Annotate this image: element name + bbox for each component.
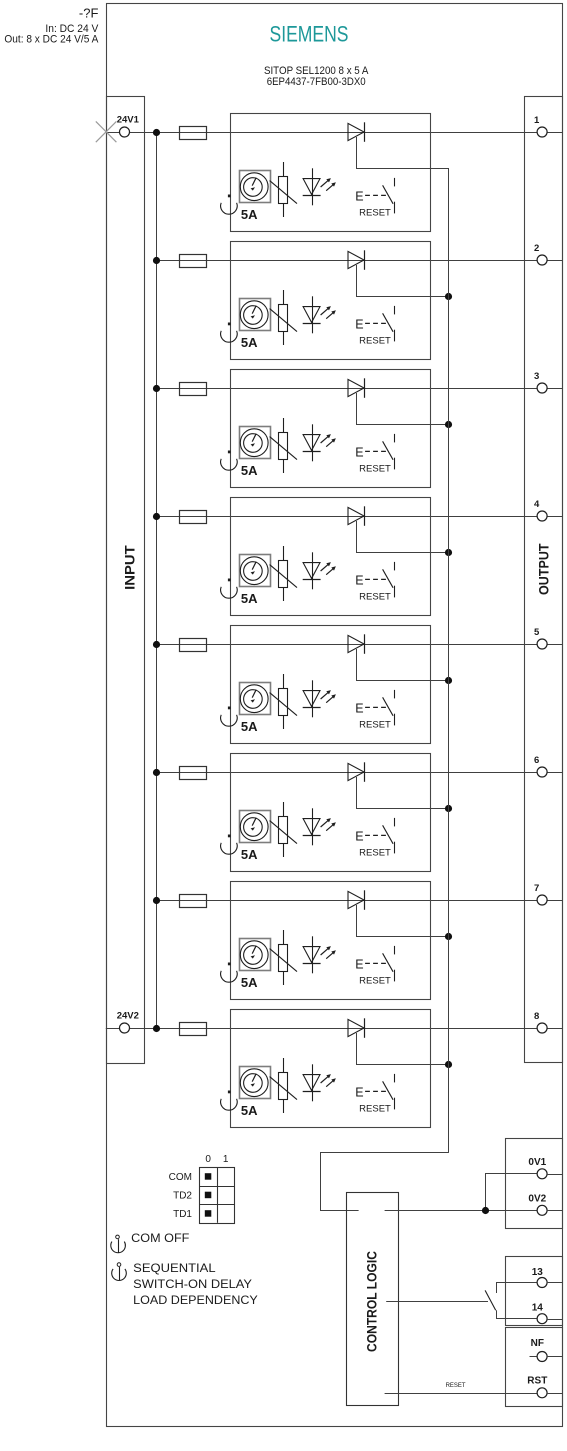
diode channel 2 xyxy=(348,250,365,269)
wire channel 6 sense tap to reset bus xyxy=(357,777,449,809)
reset switch E channel 6 xyxy=(355,818,394,854)
wire channel 8 sense tap to reset bus xyxy=(357,1033,449,1065)
svg-text:7: 7 xyxy=(534,883,539,894)
terminal RST xyxy=(527,1376,547,1398)
current sensor 5A channel 3 xyxy=(240,427,271,459)
svg-text:5A: 5A xyxy=(241,847,258,862)
electronic switch block channel 1 xyxy=(231,114,431,232)
svg-text:E: E xyxy=(355,958,363,972)
legend anchor symbol sequential xyxy=(112,1263,127,1281)
svg-text:RESET: RESET xyxy=(359,1103,391,1114)
junction node channel 4 on reset bus xyxy=(445,549,452,556)
wire NF stub left xyxy=(530,1356,538,1358)
current sensor 5A channel 4 xyxy=(240,555,271,587)
svg-text:8: 8 xyxy=(534,1011,539,1022)
junction node channel 3 on reset bus xyxy=(445,421,452,428)
DIP switch COM position xyxy=(205,1173,212,1180)
junction node channel 8 on reset bus xyxy=(445,1061,452,1068)
diode channel 8 xyxy=(348,1018,365,1038)
svg-text:RST: RST xyxy=(527,1376,547,1387)
24V input bus (left vertical) xyxy=(156,132,158,1028)
electronic switch block channel 5 xyxy=(231,626,431,744)
reset switch E channel 4 xyxy=(355,562,394,598)
output terminal 7 xyxy=(534,883,547,905)
svg-text:SEQUENTIAL: SEQUENTIAL xyxy=(133,1263,216,1275)
diode channel 1 xyxy=(348,122,365,142)
fuse channel 6 xyxy=(180,767,207,780)
wire 13 stub xyxy=(547,1282,563,1284)
wire channel 3 sense tap to reset bus xyxy=(357,393,449,425)
LED indicator channel 3 xyxy=(303,424,336,461)
svg-text:CONTROL LOGIC: CONTROL LOGIC xyxy=(364,1251,380,1352)
junction node channel 5 on reset bus xyxy=(445,677,452,684)
svg-text:RESET: RESET xyxy=(359,207,391,218)
LED indicator channel 4 xyxy=(303,552,336,589)
diode channel 5 xyxy=(348,634,365,654)
junction node channel 2 on 24V bus xyxy=(153,257,160,264)
junction node channel 2 on reset bus xyxy=(445,293,452,300)
LED indicator channel 6 xyxy=(303,808,336,845)
control logic block U1 xyxy=(347,1193,399,1406)
svg-text:5A: 5A xyxy=(241,463,258,478)
svg-text:TD1: TD1 xyxy=(173,1209,192,1220)
outer enclosure border xyxy=(107,4,563,1427)
varistor channel 5 xyxy=(270,674,297,729)
varistor channel 4 xyxy=(270,546,297,601)
wire channel 1 main rail xyxy=(106,132,563,134)
terminal 13 xyxy=(532,1267,547,1288)
junction node 0V xyxy=(482,1207,489,1214)
terminal 0V1 xyxy=(528,1157,547,1179)
svg-text:1: 1 xyxy=(534,115,540,126)
svg-text:E: E xyxy=(355,702,363,716)
varistor channel 6 xyxy=(270,802,297,857)
current sensor 5A channel 8 xyxy=(240,1067,271,1099)
wire channel 7 main rail xyxy=(156,900,563,902)
terminal 24V1 xyxy=(117,114,140,137)
svg-text:SIEMENS: SIEMENS xyxy=(270,22,349,47)
svg-text:COM OFF: COM OFF xyxy=(131,1233,189,1245)
svg-text:OUTPUT: OUTPUT xyxy=(536,543,552,595)
INPUT terminal block xyxy=(107,97,145,1064)
svg-text:RESET: RESET xyxy=(359,975,391,986)
relay contact 13-14 xyxy=(485,1283,537,1319)
wire reset bus to control logic xyxy=(321,1153,449,1211)
NF RST terminal block xyxy=(506,1328,563,1407)
reset sense bus vertical xyxy=(448,168,450,1153)
legend anchor symbol COM OFF xyxy=(111,1235,126,1253)
svg-text:24V1: 24V1 xyxy=(117,114,140,125)
svg-text:0V1: 0V1 xyxy=(528,1157,546,1168)
junction node channel 6 on reset bus xyxy=(445,805,452,812)
output terminal 6 xyxy=(534,755,547,777)
varistor channel 2 xyxy=(270,290,297,345)
signalling contact block 13/14 xyxy=(506,1257,563,1326)
svg-text:5A: 5A xyxy=(241,335,258,350)
OUTPUT terminal block xyxy=(525,97,563,1063)
output terminal 5 xyxy=(534,627,547,649)
wire 0V2 stub xyxy=(547,1210,563,1212)
wire channel 5 main rail xyxy=(156,644,563,646)
svg-text:14: 14 xyxy=(532,1303,544,1314)
junction node channel 1 on 24V bus xyxy=(153,129,160,136)
wire NF stub right xyxy=(547,1356,563,1358)
svg-text:1: 1 xyxy=(223,1154,229,1165)
reset switch E channel 8 xyxy=(355,1074,394,1110)
DIP switch TD2 position xyxy=(205,1192,212,1199)
junction node channel 8 on 24V bus xyxy=(153,1025,160,1032)
svg-text:INPUT: INPUT xyxy=(121,545,137,590)
wire channel 7 sense tap to reset bus xyxy=(357,905,449,937)
LED indicator channel 2 xyxy=(303,296,336,333)
LED indicator channel 7 xyxy=(303,936,336,973)
wire channel 4 main rail xyxy=(156,516,563,518)
svg-text:3: 3 xyxy=(534,371,539,382)
junction node channel 3 on 24V bus xyxy=(153,385,160,392)
output terminal 8 xyxy=(534,1011,547,1033)
svg-text:0: 0 xyxy=(205,1154,211,1165)
current sensor 5A channel 1 xyxy=(240,171,271,203)
0V terminal block xyxy=(506,1139,563,1229)
electronic switch block channel 3 xyxy=(231,370,431,488)
current sensor 5A channel 2 xyxy=(240,299,271,331)
fuse channel 4 xyxy=(180,511,207,524)
current sensor 5A channel 6 xyxy=(240,811,271,843)
electronic switch block channel 6 xyxy=(231,754,431,872)
reset switch E channel 7 xyxy=(355,946,394,982)
electronic switch block channel 8 xyxy=(231,1010,431,1128)
wire channel 4 sense tap to reset bus xyxy=(357,521,449,553)
adjustment anchor symbol channel 5 xyxy=(221,707,238,727)
svg-text:RESET: RESET xyxy=(359,847,391,858)
junction node channel 5 on 24V bus xyxy=(153,641,160,648)
adjustment anchor symbol channel 3 xyxy=(221,451,238,471)
wire channel 2 main rail xyxy=(156,260,563,262)
svg-text:24V2: 24V2 xyxy=(117,1010,139,1021)
svg-text:RESET: RESET xyxy=(359,591,391,602)
svg-text:5A: 5A xyxy=(241,591,258,606)
wire control logic to contact xyxy=(386,1301,488,1303)
supply cross mark at 24V1 xyxy=(96,121,117,142)
LED indicator channel 1 xyxy=(303,168,336,205)
diode channel 6 xyxy=(348,762,365,782)
diode channel 3 xyxy=(348,378,365,398)
wire channel 5 sense tap to reset bus xyxy=(357,649,449,681)
wire 0V1 branch xyxy=(486,1174,538,1211)
svg-text:5A: 5A xyxy=(241,975,258,990)
adjustment anchor symbol channel 8 xyxy=(221,1091,238,1111)
svg-text:SWITCH-ON DELAY: SWITCH-ON DELAY xyxy=(133,1279,252,1291)
wire control logic to 0V2 xyxy=(385,1210,538,1212)
svg-text:5A: 5A xyxy=(241,1103,258,1118)
terminal 0V2 xyxy=(528,1194,547,1216)
svg-text:6EP4437-7FB00-3DX0: 6EP4437-7FB00-3DX0 xyxy=(267,76,366,88)
LED indicator channel 8 xyxy=(303,1064,336,1101)
wire channel 3 main rail xyxy=(156,388,563,390)
wire control logic RESET to RST xyxy=(385,1393,538,1395)
electronic switch block channel 4 xyxy=(231,498,431,616)
diode channel 4 xyxy=(348,506,365,526)
terminal 14 xyxy=(532,1303,547,1324)
svg-text:E: E xyxy=(355,1086,363,1100)
svg-text:13: 13 xyxy=(532,1267,544,1278)
svg-text:0V2: 0V2 xyxy=(528,1194,546,1205)
wire channel 2 sense tap to reset bus xyxy=(357,265,449,297)
current sensor 5A channel 7 xyxy=(240,939,271,971)
output terminal 2 xyxy=(534,243,547,265)
reset switch E channel 1 xyxy=(355,178,394,214)
output terminal 1 xyxy=(534,115,547,137)
terminal NF xyxy=(531,1338,547,1362)
wire channel 8 main rail xyxy=(106,1028,563,1030)
reset switch E channel 3 xyxy=(355,434,394,470)
adjustment anchor symbol channel 1 xyxy=(221,195,238,215)
svg-text:E: E xyxy=(355,318,363,332)
diode channel 7 xyxy=(348,890,365,910)
adjustment anchor symbol channel 4 xyxy=(221,579,238,599)
varistor channel 8 xyxy=(270,1058,297,1113)
terminal 24V2 xyxy=(117,1010,139,1033)
LED indicator channel 5 xyxy=(303,680,336,717)
svg-text:LOAD DEPENDENCY: LOAD DEPENDENCY xyxy=(133,1295,258,1307)
svg-text:-?F: -?F xyxy=(79,6,99,21)
svg-text:TD2: TD2 xyxy=(173,1190,192,1201)
svg-text:RESET: RESET xyxy=(359,719,391,730)
output terminal 4 xyxy=(534,499,547,521)
electronic switch block channel 2 xyxy=(231,242,431,360)
reset switch E channel 2 xyxy=(355,306,394,342)
wire 0V1 stub xyxy=(547,1174,563,1176)
svg-text:E: E xyxy=(355,574,363,588)
svg-text:RESET: RESET xyxy=(446,1383,466,1389)
svg-text:2: 2 xyxy=(534,243,539,254)
svg-text:E: E xyxy=(355,446,363,460)
adjustment anchor symbol channel 7 xyxy=(221,963,238,983)
wire channel 6 main rail xyxy=(156,772,563,774)
fuse channel 7 xyxy=(180,895,207,908)
svg-text:6: 6 xyxy=(534,755,539,766)
electronic switch block channel 7 xyxy=(231,882,431,1000)
svg-text:5A: 5A xyxy=(241,719,258,734)
fuse channel 2 xyxy=(180,255,207,268)
junction node channel 6 on 24V bus xyxy=(153,769,160,776)
varistor channel 7 xyxy=(270,930,297,985)
current sensor 5A channel 5 xyxy=(240,683,271,715)
fuse channel 5 xyxy=(180,639,207,652)
adjustment anchor symbol channel 6 xyxy=(221,835,238,855)
junction node channel 4 on 24V bus xyxy=(153,513,160,520)
svg-text:COM: COM xyxy=(169,1172,192,1183)
wire 14 stub xyxy=(547,1319,563,1321)
wire channel 1 sense tap to reset bus xyxy=(357,137,449,169)
varistor channel 3 xyxy=(270,418,297,473)
fuse channel 8 xyxy=(180,1023,207,1036)
svg-text:Out: 8 x DC 24 V/5 A: Out: 8 x DC 24 V/5 A xyxy=(4,33,99,45)
adjustment anchor symbol channel 2 xyxy=(221,323,238,343)
output terminal 3 xyxy=(534,371,547,393)
svg-text:RESET: RESET xyxy=(359,335,391,346)
junction node channel 7 on 24V bus xyxy=(153,897,160,904)
DIP switch table grid xyxy=(199,1167,234,1223)
varistor channel 1 xyxy=(270,162,297,217)
DIP switch TD1 position xyxy=(205,1210,212,1217)
fuse channel 3 xyxy=(180,383,207,396)
junction node channel 7 on reset bus xyxy=(445,933,452,940)
wire RST stub right xyxy=(547,1393,563,1395)
svg-text:E: E xyxy=(355,830,363,844)
svg-text:5A: 5A xyxy=(241,207,258,222)
reset switch E channel 5 xyxy=(355,690,394,726)
svg-text:4: 4 xyxy=(534,499,540,510)
svg-text:E: E xyxy=(355,190,363,204)
svg-text:NF: NF xyxy=(531,1338,544,1349)
fuse channel 1 xyxy=(180,127,207,140)
svg-text:5: 5 xyxy=(534,627,540,638)
svg-text:RESET: RESET xyxy=(359,463,391,474)
